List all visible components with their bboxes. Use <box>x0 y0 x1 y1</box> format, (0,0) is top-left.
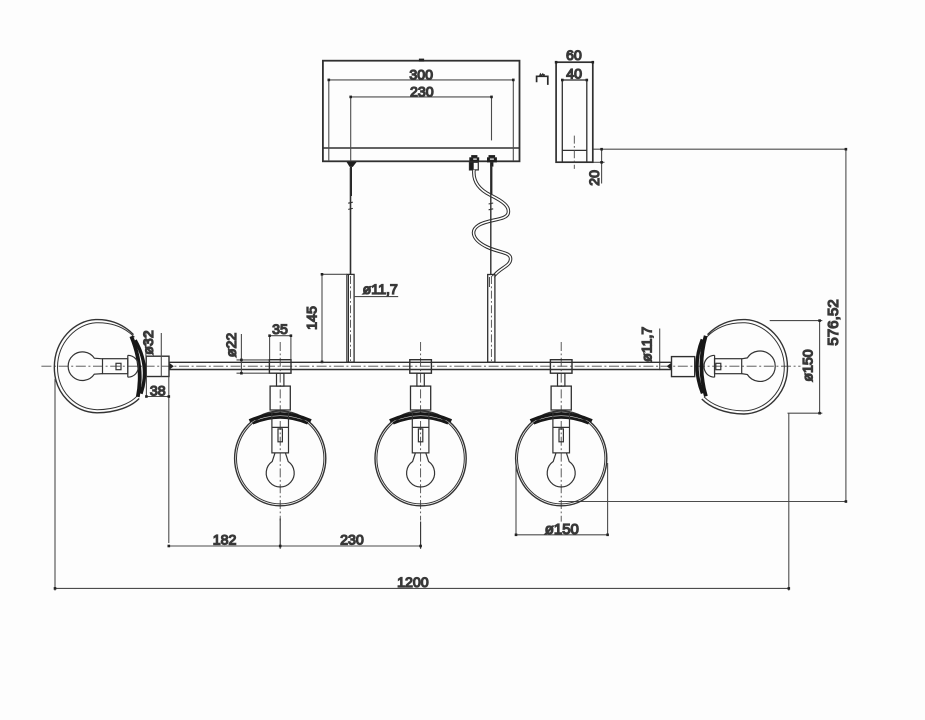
left globe rim <box>131 336 144 397</box>
dimension 1200 <box>54 379 790 591</box>
svg-text:ø11,7: ø11,7 <box>640 327 656 362</box>
suspension rod right <box>488 275 495 363</box>
pendant lamp 3 rim <box>530 414 592 424</box>
pendant lamp 3 socket <box>551 386 571 410</box>
pendant lamp 1 holder <box>272 412 289 453</box>
pendant lamp 2 bulb <box>407 453 435 487</box>
svg-text:300: 300 <box>409 68 433 84</box>
svg-text:576,52: 576,52 <box>825 299 842 345</box>
dimension 40 <box>561 79 588 82</box>
dimension 145 <box>321 273 347 363</box>
right globe rim <box>697 336 706 397</box>
pendant lamp 2 center line <box>420 342 422 521</box>
bar end nub right <box>667 363 672 370</box>
canopy cable attachment left <box>346 162 356 167</box>
dimension ø32 <box>146 333 161 377</box>
pendant lamp 3 globe <box>516 411 607 506</box>
pendant lamp 3 holder <box>553 412 570 453</box>
dimension ø150 bottom <box>515 460 609 537</box>
side view center line <box>573 136 575 169</box>
dimension ø150 right <box>770 319 823 414</box>
left globe shade <box>54 320 139 413</box>
svg-text:182: 182 <box>213 533 237 549</box>
dimension 35 <box>268 334 292 359</box>
svg-text:230: 230 <box>410 85 434 101</box>
horizontal center axis <box>41 365 800 367</box>
dimension 38 <box>145 377 170 544</box>
clip symbol <box>537 74 548 85</box>
pendant lamp 1 rim <box>249 414 311 424</box>
label ø11,7 right <box>640 327 660 371</box>
right globe shade <box>702 320 788 414</box>
dimension ø22 <box>237 334 270 375</box>
suspension cable right <box>489 164 494 274</box>
svg-text:ø11,7: ø11,7 <box>363 282 398 298</box>
bar tube <box>169 362 672 369</box>
svg-text:ø150: ø150 <box>545 521 579 538</box>
suspension cable left <box>348 168 353 275</box>
canopy top hook tick <box>419 59 424 62</box>
bar end nub left <box>169 363 174 370</box>
right socket block <box>672 357 695 377</box>
left bulb <box>68 352 138 381</box>
pendant lamp 2 globe <box>375 411 466 506</box>
pendant lamp 2 rim <box>390 414 452 424</box>
canopy side view box <box>556 62 593 162</box>
dimension 60 <box>555 61 594 64</box>
pendant lamp 2 collar <box>410 360 432 374</box>
pendant lamp 3 stem <box>558 373 565 386</box>
label ø11,7 left <box>354 282 398 298</box>
pendant lamp 3 bulb <box>547 453 575 487</box>
pendant lamp 1 center line <box>279 342 281 521</box>
suspension rod left <box>347 274 354 362</box>
canopy cable gland right <box>487 155 497 196</box>
svg-text:145: 145 <box>304 306 320 330</box>
pendant lamp 3 center line <box>560 342 562 522</box>
dimension 230 top <box>349 96 492 162</box>
svg-text:ø22: ø22 <box>224 333 240 358</box>
pendant lamp 2 socket <box>411 386 431 410</box>
svg-text:35: 35 <box>272 322 288 338</box>
dimension 182 and 230 bottom <box>168 519 422 549</box>
spiral cord <box>474 170 511 277</box>
pendant lamp 2 holder <box>412 412 429 453</box>
svg-text:40: 40 <box>566 66 582 82</box>
pendant lamp 2 stem <box>417 373 424 386</box>
dimension 20 <box>594 148 846 184</box>
canopy cable gland left <box>469 155 479 170</box>
svg-text:ø150: ø150 <box>801 349 817 381</box>
pendant lamp 3 collar <box>550 360 572 374</box>
svg-text:1200: 1200 <box>397 575 429 591</box>
right bulb <box>704 351 775 381</box>
pendant lamp 1 globe <box>235 411 326 506</box>
dimension 576,52 <box>559 148 847 503</box>
dimension 300 <box>328 79 515 161</box>
pendant lamp 1 socket <box>270 386 290 410</box>
pendant lamp 1 bulb <box>266 453 294 487</box>
canopy front view <box>323 61 520 162</box>
svg-text:38: 38 <box>150 383 166 399</box>
pendant lamp 1 stem <box>277 373 284 386</box>
left end mounting block <box>146 356 169 376</box>
svg-text:230: 230 <box>340 533 364 549</box>
svg-text:60: 60 <box>566 48 582 64</box>
svg-text:20: 20 <box>587 170 603 186</box>
pendant lamp 1 collar <box>269 360 291 374</box>
svg-text:ø32: ø32 <box>141 330 157 355</box>
